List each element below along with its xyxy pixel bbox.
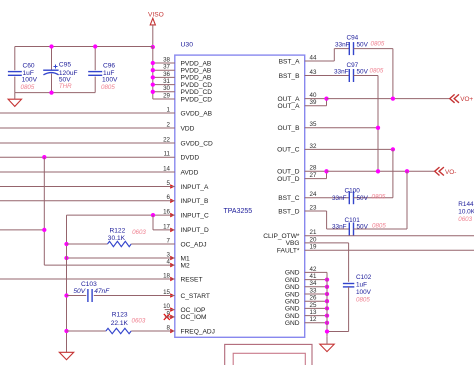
svg-text:39: 39 — [310, 99, 317, 106]
node ground bus junction R123 — [64, 329, 68, 333]
resistor R122 refdes label — [110, 227, 126, 234]
wire INPUT_C drop to ground bus — [66, 215, 68, 244]
svg-text:35: 35 — [310, 121, 317, 128]
pin 9 OC_IOM (left) — [167, 310, 207, 321]
IC U30 refdes label — [181, 42, 194, 49]
wire C97 to OUT_B vertical — [377, 76, 379, 172]
svg-text:50V: 50V — [357, 224, 369, 231]
pin 25 GND (right) — [285, 302, 317, 313]
pin 20 VBG (right) — [286, 236, 317, 247]
svg-text:5: 5 — [167, 180, 171, 187]
svg-text:16: 16 — [163, 209, 170, 216]
wire OUT_D pins join bar — [326, 171, 328, 178]
resistor R144 refdes label — [458, 201, 474, 208]
svg-text:R123: R123 — [112, 312, 128, 319]
wire GND pin stubs with junctions — [305, 272, 329, 325]
svg-text:0805: 0805 — [101, 84, 115, 91]
outline lower block outer — [225, 344, 312, 365]
pin 40 OUT_A (right) — [278, 92, 317, 103]
wire VDD pin 2 — [0, 127, 175, 129]
svg-text:0805: 0805 — [372, 223, 386, 230]
svg-text:C102: C102 — [356, 274, 372, 281]
svg-text:AVDD: AVDD — [181, 169, 199, 176]
capacitor C60 value label 100V — [22, 77, 38, 84]
pin 16 INPUT_C (left) — [163, 209, 209, 220]
pin 24 BST_C (right) — [278, 191, 317, 202]
wire C101 left lead — [327, 228, 350, 230]
svg-text:RESET: RESET — [181, 276, 203, 283]
capacitor C95 footprint label THR — [59, 83, 72, 90]
svg-text:VISO: VISO — [148, 11, 164, 18]
svg-text:GND: GND — [285, 299, 300, 306]
svg-text:PVDD_CD: PVDD_CD — [181, 96, 213, 103]
svg-text:32: 32 — [310, 143, 317, 150]
capacitor C97 footprint label 0805 — [370, 68, 384, 75]
wire DVDD pin 11 — [0, 156, 175, 158]
ground symbol below C60 — [8, 99, 21, 106]
node VISO rail junction — [151, 45, 155, 49]
wire R122 left lead — [67, 243, 108, 245]
capacitor C96 value label 1uF — [103, 70, 114, 77]
resistor R144 footprint label 0603 — [458, 216, 472, 223]
capacitor C95 polarized plus sign — [54, 65, 58, 69]
svg-text:13: 13 — [310, 309, 317, 316]
pin 9 stub — [165, 316, 175, 318]
capacitor C97 value label 33nF — [334, 68, 349, 75]
svg-text:OUT_C: OUT_C — [277, 147, 300, 154]
svg-text:2: 2 — [167, 121, 171, 128]
wire C96 bottom lead — [94, 77, 96, 93]
wire PVDD pin stubs with junctions — [151, 61, 175, 99]
pin 36 PVDD_AB (left) — [163, 71, 212, 82]
svg-text:100V: 100V — [356, 289, 372, 296]
svg-text:PVDD_AB: PVDD_AB — [181, 60, 212, 67]
svg-text:GND: GND — [285, 306, 300, 313]
svg-text:M2: M2 — [181, 262, 190, 269]
pin 42 GND (right) — [285, 266, 317, 277]
svg-text:C_START: C_START — [181, 293, 210, 300]
node GND bus bottom junction — [325, 329, 329, 333]
node C96 top junction — [93, 44, 97, 48]
pin 8 FREQ_ADJ (left) — [167, 324, 215, 335]
node OUT_B BST junction — [376, 126, 380, 130]
svg-text:33: 33 — [310, 287, 317, 294]
port VO+ label — [460, 96, 473, 103]
svg-text:15: 15 — [163, 289, 170, 296]
svg-text:OUT_A: OUT_A — [278, 96, 301, 103]
pin 15 C_START (left) — [163, 289, 210, 300]
svg-text:4: 4 — [167, 259, 171, 266]
wire analog ground bus vertical — [66, 244, 68, 352]
IC U30 value label TPA3255 — [224, 208, 253, 215]
wire INPUT_D branch to pin 17 — [153, 229, 175, 231]
capacitor C103 value label 50V — [73, 288, 85, 295]
svg-text:TPA3255: TPA3255 — [224, 208, 253, 215]
capacitor C96 refdes label — [103, 62, 115, 69]
svg-text:GVDD_AB: GVDD_AB — [181, 110, 213, 117]
pin 1 GVDD_AB (left) — [167, 106, 213, 117]
wire R123 left lead — [67, 330, 106, 332]
svg-text:19: 19 — [310, 244, 317, 251]
svg-text:33nF: 33nF — [332, 224, 347, 231]
svg-text:0805: 0805 — [370, 68, 384, 75]
pin 18 RESET (left) — [163, 272, 202, 283]
svg-text:VBG: VBG — [286, 240, 300, 247]
svg-text:PVDD_AB: PVDD_AB — [181, 75, 212, 82]
svg-text:BST_D: BST_D — [278, 208, 299, 215]
svg-text:3: 3 — [167, 251, 171, 258]
svg-text:DVDD: DVDD — [181, 155, 200, 162]
svg-text:C95: C95 — [59, 62, 71, 69]
pin 10 OC_IOP (left) — [163, 303, 206, 314]
wire OUT_B pin 35 — [305, 127, 378, 129]
resistor R123 refdes label — [112, 312, 128, 319]
pin 41 GND (right) — [285, 273, 317, 284]
svg-text:OC_ADJ: OC_ADJ — [181, 241, 207, 248]
node ground bus junction C103 — [64, 293, 68, 297]
svg-text:CLIP_OTW*: CLIP_OTW* — [263, 233, 300, 240]
svg-text:100V: 100V — [102, 77, 118, 84]
svg-text:M1: M1 — [181, 255, 190, 262]
svg-text:1uF: 1uF — [356, 282, 367, 289]
svg-text:GND: GND — [285, 270, 300, 277]
capacitor C100 value label 33nF — [332, 195, 347, 202]
svg-text:50V: 50V — [357, 68, 369, 75]
svg-text:40: 40 — [310, 92, 317, 99]
svg-text:0805: 0805 — [372, 194, 386, 201]
ground symbol below GND bus — [320, 344, 334, 351]
svg-text:20: 20 — [310, 236, 317, 243]
svg-text:VO+: VO+ — [460, 96, 473, 103]
wire GVDD_AB pin 1 — [0, 112, 175, 114]
capacitor C95 value label 120uF — [59, 70, 78, 77]
wire OUT_A pin 39 stub — [305, 105, 327, 107]
svg-text:22: 22 — [163, 136, 170, 143]
capacitor C102 value label 1uF — [356, 282, 367, 289]
capacitor C100 refdes label — [345, 187, 361, 194]
svg-text:28: 28 — [310, 165, 317, 172]
wire OUT_D pin 27 stub — [305, 178, 327, 180]
wire PVDD bus vertical — [152, 47, 154, 99]
capacitor C102 value label 100V — [356, 289, 372, 296]
svg-text:50V: 50V — [73, 288, 85, 295]
wire OUT_A pins join bar — [326, 99, 328, 106]
svg-text:OUT_D: OUT_D — [277, 176, 300, 183]
pin 4 M2 (left) — [167, 259, 190, 270]
svg-text:30.1K: 30.1K — [108, 235, 126, 242]
svg-text:17: 17 — [163, 223, 170, 230]
capacitor C95 value label 50V — [59, 77, 71, 84]
pin 6 INPUT_B (left) — [167, 194, 209, 205]
pin 10 stub — [165, 309, 175, 311]
node INPUT_C junction — [151, 213, 155, 217]
node DVDD junction at x=44 — [42, 155, 46, 159]
svg-text:10: 10 — [163, 303, 170, 310]
svg-text:OUT_D: OUT_D — [277, 169, 300, 176]
wire C94 left lead — [334, 48, 349, 50]
pin 30 PVDD_CD (left) — [163, 85, 212, 96]
capacitor C60 value label 1uF — [23, 70, 34, 77]
capacitor C60 refdes label — [23, 62, 35, 69]
wire C103 right lead to pin 15 — [94, 295, 175, 297]
capacitor C96 footprint label 0805 — [101, 84, 115, 91]
wire AVDD pin 14 — [0, 171, 175, 173]
capacitor C94 value label 33nF — [335, 41, 350, 48]
svg-text:VDD: VDD — [181, 125, 195, 132]
svg-text:43: 43 — [310, 69, 317, 76]
svg-text:INPUT_D: INPUT_D — [181, 227, 209, 234]
pin 7 OC_ADJ (left) — [167, 237, 207, 248]
wire C95 top lead — [51, 47, 53, 71]
svg-text:34: 34 — [310, 280, 317, 287]
wire C100 right lead — [354, 197, 393, 199]
node OUT_D BST junction C97 side — [376, 169, 380, 173]
wire OUT_D to VO- — [327, 170, 435, 172]
wire GND bus vertical — [326, 272, 328, 336]
svg-text:50V: 50V — [357, 195, 369, 202]
svg-text:C103: C103 — [81, 281, 97, 288]
resistor R122 — [108, 241, 132, 246]
wire BST_C pin 24 lead — [305, 197, 350, 199]
svg-text:GND: GND — [285, 320, 300, 327]
capacitor C101 — [349, 223, 353, 236]
outline lower block inner — [233, 353, 305, 365]
port VO- label — [445, 169, 456, 176]
wire C60 ground stub — [14, 93, 16, 100]
svg-text:FREQ_ADJ: FREQ_ADJ — [181, 328, 215, 335]
wire C94 to OUT_A vertical — [392, 49, 394, 99]
svg-text:BST_A: BST_A — [279, 58, 300, 65]
capacitor C97 value label 50V — [357, 68, 369, 75]
svg-text:C100: C100 — [345, 187, 361, 194]
capacitor C97 refdes label — [347, 62, 359, 69]
svg-text:14: 14 — [163, 165, 170, 172]
capacitor C95 bottom curved plate — [43, 73, 58, 75]
power symbol VISO arrow — [150, 18, 155, 25]
svg-text:C94: C94 — [347, 34, 359, 41]
wire C96 top lead — [94, 47, 96, 71]
svg-text:0603: 0603 — [458, 216, 472, 223]
capacitor C103 — [88, 289, 92, 302]
svg-text:INPUT_A: INPUT_A — [181, 184, 209, 191]
capacitor C102 refdes label — [356, 274, 372, 281]
node OUT_A BST junction — [391, 96, 395, 100]
svg-text:C96: C96 — [103, 62, 115, 69]
svg-text:31: 31 — [163, 78, 170, 85]
svg-text:18: 18 — [163, 272, 170, 279]
svg-text:BST_B: BST_B — [279, 73, 300, 80]
wire M1 pin 3 from ground bus — [67, 257, 175, 259]
node C95 bottom junction — [49, 90, 53, 94]
capacitor C94 — [349, 42, 353, 55]
capacitor C100 value label 50V — [357, 195, 369, 202]
svg-text:INPUT_B: INPUT_B — [181, 198, 209, 205]
resistor R144 value label 10.0K — [458, 208, 474, 215]
svg-text:27: 27 — [310, 172, 317, 179]
svg-text:41: 41 — [310, 273, 317, 280]
capacitor C100 — [349, 191, 353, 204]
wire C103 left lead — [67, 295, 87, 297]
wire INPUT_C to INPUT_D riser — [152, 215, 154, 230]
resistor R123 value label 22.1K — [111, 320, 129, 327]
svg-text:10.0K: 10.0K — [458, 208, 474, 215]
wire OUT_A pin 40 stub — [305, 98, 327, 100]
pin 44 BST_A (right) — [279, 54, 317, 65]
pin 39 OUT_A (right) — [278, 99, 317, 110]
svg-text:42: 42 — [310, 266, 317, 273]
wire OUT_C pin 32 — [305, 148, 393, 150]
pin 22 GVDD_CD (left) — [163, 136, 213, 147]
capacitor C103 refdes label — [81, 281, 97, 288]
svg-text:0603: 0603 — [132, 317, 146, 324]
wire CLIP_OTW pin 21 to edge — [305, 235, 474, 237]
wire GND bus to ground stub — [326, 337, 328, 344]
port VO+ chevron — [450, 94, 459, 102]
capacitor C101 footprint label 0805 — [372, 223, 386, 230]
svg-text:23: 23 — [310, 204, 317, 211]
resistor R123 footprint label 0603 — [132, 317, 146, 324]
wire C101 to OUT_D vertical — [406, 171, 408, 229]
node DVDD bus junction — [42, 228, 46, 232]
wire decoupling bottom rail — [15, 92, 95, 94]
capacitor C101 refdes label — [345, 217, 361, 224]
pin 3 M1 (left) — [167, 251, 190, 262]
node OUT_A pins junction — [324, 96, 328, 100]
wire R123 right lead to pin 8 — [131, 330, 175, 332]
wire INPUT_B pin 6 — [0, 200, 175, 202]
svg-text:25: 25 — [310, 302, 317, 309]
svg-text:37: 37 — [163, 64, 170, 71]
node OUT_D BST junction C101 side — [405, 169, 409, 173]
svg-text:OUT_A: OUT_A — [278, 103, 301, 110]
svg-text:0805: 0805 — [356, 297, 370, 304]
node C95 top junction — [49, 44, 53, 48]
node OUT_C BST junction — [391, 147, 395, 151]
wire M2 horizontal from DVDD bus — [44, 264, 175, 266]
wire FAULT pin 19 to edge — [305, 249, 474, 251]
wire C102 top lead — [348, 243, 350, 282]
svg-text:33nF: 33nF — [334, 68, 349, 75]
wire INPUT_A pin 5 — [0, 186, 175, 188]
svg-text:GND: GND — [285, 277, 300, 284]
capacitor C101 value label 50V — [357, 224, 369, 231]
pin 26 GND (right) — [285, 295, 317, 306]
svg-text:GND: GND — [285, 284, 300, 291]
pin 31 PVDD_CD (left) — [163, 78, 212, 89]
svg-text:VO-: VO- — [445, 169, 456, 176]
pin 2 VDD (left) — [167, 121, 195, 132]
resistor R122 value label 30.1K — [108, 235, 126, 242]
svg-text:44: 44 — [310, 54, 317, 61]
svg-text:21: 21 — [310, 229, 317, 236]
wire C60 bottom lead — [14, 77, 16, 93]
svg-text:33nF: 33nF — [332, 195, 347, 202]
svg-text:47nF: 47nF — [94, 288, 110, 295]
svg-text:22.1K: 22.1K — [111, 320, 129, 327]
wire from left edge joining DVDD bus — [0, 229, 44, 231]
wire OUT_A to VO+ — [327, 98, 450, 100]
node ground bus junction M1 — [64, 256, 68, 260]
svg-text:PVDD_CD: PVDD_CD — [181, 89, 213, 96]
svg-text:36: 36 — [163, 71, 170, 78]
pin 23 BST_D (right) — [278, 204, 317, 215]
resistor R123 — [106, 328, 131, 333]
capacitor C96 — [88, 72, 102, 76]
capacitor C101 value label 33nF — [332, 224, 347, 231]
svg-text:GVDD_CD: GVDD_CD — [181, 140, 213, 147]
wire decoupling top rail — [15, 46, 153, 48]
svg-text:GND: GND — [285, 313, 300, 320]
pin 37 PVDD_AB (left) — [163, 64, 212, 75]
capacitor C94 value label 50V — [357, 41, 369, 48]
capacitor C94 refdes label — [347, 34, 359, 41]
pin 32 OUT_C (right) — [277, 143, 317, 154]
capacitor C102 — [343, 284, 354, 287]
svg-text:6: 6 — [167, 194, 171, 201]
svg-text:THR: THR — [59, 83, 72, 90]
capacitor C102 footprint label 0805 — [356, 297, 370, 304]
pin 43 BST_B (right) — [279, 69, 317, 80]
wire C100 to OUT_C vertical — [392, 149, 394, 197]
capacitor C95 refdes label — [59, 62, 71, 69]
power symbol VISO label — [148, 11, 164, 18]
wire BST_D riser down — [326, 211, 328, 229]
wire C101 right lead — [354, 228, 407, 230]
svg-text:0603: 0603 — [132, 229, 146, 236]
wire RESET pin 18 — [0, 278, 175, 280]
svg-text:U30: U30 — [181, 42, 194, 49]
pin 38 PVDD_AB (left) — [163, 56, 212, 67]
capacitor C103 value label 47nF — [94, 288, 110, 295]
wire BST_A pin 44 to riser — [305, 60, 335, 62]
capacitor C94 footprint label 0805 — [371, 41, 385, 48]
svg-text:11: 11 — [164, 151, 171, 158]
pin 14 AVDD (left) — [163, 165, 198, 176]
svg-text:PVDD_AB: PVDD_AB — [181, 68, 212, 75]
wire VISO vertical — [152, 25, 154, 47]
IC U30 TPA3255 body — [175, 55, 305, 337]
wire DVDD vertical bus — [43, 157, 45, 265]
capacitor C60 — [8, 72, 22, 76]
svg-text:R122: R122 — [110, 227, 126, 234]
pin 35 OUT_B (right) — [278, 121, 317, 132]
pin 17 INPUT_D (left) — [163, 223, 209, 234]
svg-text:OUT_B: OUT_B — [278, 125, 301, 132]
svg-text:BST_C: BST_C — [278, 195, 299, 202]
svg-text:OC_IOM: OC_IOM — [181, 314, 207, 321]
svg-text:1: 1 — [167, 106, 171, 113]
svg-text:FAULT*: FAULT* — [277, 248, 300, 255]
port VO- chevron — [435, 167, 444, 175]
wire C95 bottom lead — [51, 74, 53, 93]
capacitor C95 top plate — [43, 69, 58, 71]
svg-text:PVDD_CD: PVDD_CD — [181, 82, 213, 89]
capacitor C97 — [349, 69, 353, 82]
pin 12 GND (right) — [285, 316, 317, 327]
ground symbol below R123 bus — [59, 352, 73, 359]
wire INPUT_C horizontal — [67, 214, 175, 216]
wire C102 bottom lead — [348, 287, 350, 332]
wire BST_A riser up — [333, 49, 335, 61]
svg-text:24: 24 — [310, 191, 317, 198]
wire C102 bottom to GND bus — [327, 331, 349, 333]
wire C60 top lead — [14, 47, 16, 71]
svg-text:R144: R144 — [458, 201, 474, 208]
svg-text:30: 30 — [163, 85, 170, 92]
pin 34 GND (right) — [285, 280, 317, 291]
capacitor C60 footprint label 0805 — [21, 84, 35, 91]
svg-text:C60: C60 — [23, 62, 35, 69]
